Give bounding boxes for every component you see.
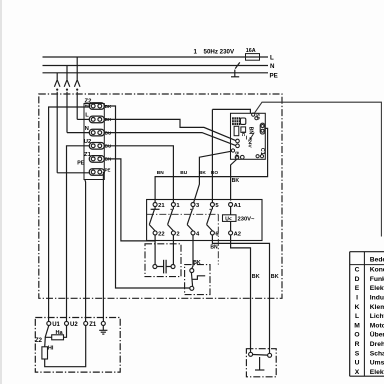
svg-text:BK: BK bbox=[235, 151, 240, 158]
svg-text:PE: PE bbox=[105, 167, 111, 172]
svg-text:N: N bbox=[270, 63, 275, 70]
svg-text:Z1: Z1 bbox=[89, 322, 97, 328]
svg-text:BN: BN bbox=[157, 170, 164, 176]
svg-text:I: I bbox=[356, 294, 358, 301]
svg-text:Bedeutung: Bedeutung bbox=[370, 257, 384, 264]
svg-text:SP: SP bbox=[255, 113, 260, 119]
svg-text:Funkentstörung: Funkentstörung bbox=[370, 276, 384, 283]
svg-text:A1: A1 bbox=[234, 203, 242, 209]
svg-text:50Hz 230V: 50Hz 230V bbox=[204, 49, 235, 56]
svg-text:21: 21 bbox=[158, 203, 165, 209]
svg-text:C: C bbox=[355, 267, 360, 274]
svg-text:BK: BK bbox=[252, 274, 260, 280]
svg-text:Motorschutz: Motorschutz bbox=[370, 322, 384, 329]
svg-text:HI: HI bbox=[48, 345, 54, 351]
svg-text:Klemmleiste: Klemmleiste bbox=[370, 304, 384, 311]
svg-text:Schalter: Schalter bbox=[370, 350, 384, 357]
svg-text:IC: IC bbox=[240, 131, 246, 136]
svg-text:BN: BN bbox=[210, 245, 218, 251]
svg-text:L: L bbox=[270, 54, 274, 61]
svg-text:L: L bbox=[85, 113, 89, 119]
svg-text:L: L bbox=[355, 313, 359, 320]
svg-text:Z2: Z2 bbox=[35, 338, 43, 344]
svg-text:K: K bbox=[355, 304, 360, 311]
svg-text:Induktivität: Induktivität bbox=[370, 294, 384, 301]
svg-text:22: 22 bbox=[158, 231, 164, 237]
svg-text:230V~: 230V~ bbox=[238, 217, 256, 223]
svg-text:PE: PE bbox=[270, 72, 278, 79]
svg-text:O: O bbox=[354, 332, 359, 339]
svg-text:2: 2 bbox=[176, 231, 179, 237]
svg-text:1: 1 bbox=[194, 49, 198, 56]
svg-text:BK: BK bbox=[199, 170, 206, 176]
svg-text:C1: C1 bbox=[259, 148, 265, 155]
svg-text:D: D bbox=[355, 276, 360, 283]
svg-text:BK: BK bbox=[232, 178, 240, 184]
svg-text:PE: PE bbox=[77, 161, 84, 167]
svg-text:24V: 24V bbox=[247, 139, 252, 148]
svg-text:16A: 16A bbox=[246, 48, 256, 54]
svg-text:Lichtschalter: Lichtschalter bbox=[370, 313, 384, 320]
svg-text:A2: A2 bbox=[234, 231, 241, 237]
svg-text:E: E bbox=[355, 285, 360, 292]
svg-text:Umschalter: Umschalter bbox=[370, 360, 384, 367]
svg-text:Drehzahlregler: Drehzahlregler bbox=[370, 341, 384, 348]
svg-text:Kondensator: Kondensator bbox=[370, 267, 384, 274]
svg-text:U: U bbox=[355, 360, 360, 367]
svg-text:S: S bbox=[355, 350, 360, 357]
svg-text:U2: U2 bbox=[70, 322, 78, 328]
svg-text:N: N bbox=[85, 126, 89, 132]
svg-text:BN: BN bbox=[248, 127, 254, 135]
svg-text:Elektronik: Elektronik bbox=[370, 285, 384, 292]
svg-text:BK: BK bbox=[193, 260, 201, 266]
svg-text:RO: RO bbox=[211, 170, 218, 176]
svg-text:BK: BK bbox=[271, 274, 279, 280]
svg-text:U2: U2 bbox=[84, 139, 92, 145]
svg-text:U1: U1 bbox=[52, 322, 60, 328]
svg-text:R: R bbox=[355, 341, 360, 348]
svg-text:X: X bbox=[355, 369, 360, 376]
svg-text:Z1: Z1 bbox=[84, 152, 92, 158]
svg-text:BU: BU bbox=[180, 170, 187, 176]
svg-text:Überwachung: Überwachung bbox=[370, 330, 384, 339]
svg-text:M: M bbox=[354, 322, 360, 329]
svg-text:Elektronikplatine: Elektronikplatine bbox=[370, 369, 384, 376]
